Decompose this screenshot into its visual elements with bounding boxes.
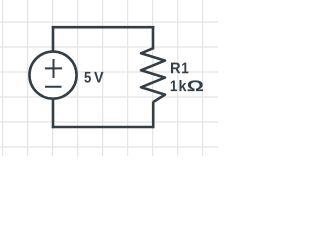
wire left vertical from V1 - terminal to bottom wire [52,98,55,129]
label R1 reference designator [171,63,188,74]
label 5 V for voltage source V1 [84,72,103,83]
wire right vertical from R1 to bottom wire [152,102,155,129]
wire top horizontal from V1 to R1 [52,26,155,29]
wire left vertical from top wire to V1 + terminal [52,26,55,53]
label 1 kOhm resistor value [171,80,203,91]
resistor R1 zigzag body [141,48,165,102]
voltage source V1 5V [29,52,76,99]
wire bottom horizontal from V1 to R1 [52,126,155,129]
wire right vertical from top wire to R1 [152,26,155,50]
